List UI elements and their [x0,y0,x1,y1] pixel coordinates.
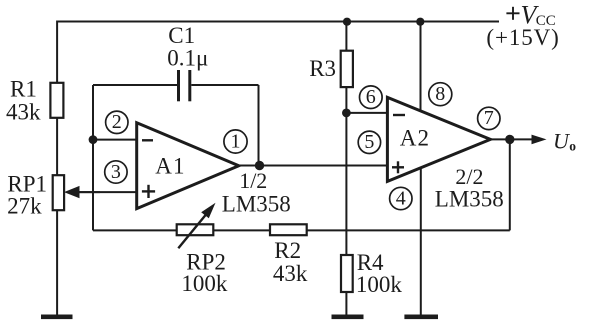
svg-text:2: 2 [112,111,122,133]
svg-text:100k: 100k [356,272,403,297]
svg-text:1: 1 [231,130,241,152]
svg-text:3: 3 [111,161,121,183]
svg-text:(+15V): (+15V) [486,25,559,50]
svg-text:R2: R2 [274,238,301,263]
svg-text:LM358: LM358 [222,192,291,217]
svg-text:4: 4 [396,187,406,209]
svg-text:LM358: LM358 [435,186,504,211]
svg-text:1/2: 1/2 [239,168,267,193]
svg-text:R1: R1 [10,77,37,102]
svg-text:43k: 43k [6,100,41,125]
svg-text:100k: 100k [181,271,228,296]
svg-text:C1: C1 [168,23,195,48]
svg-text:o: o [569,138,576,153]
svg-text:7: 7 [484,107,494,129]
svg-text:27k: 27k [7,194,42,219]
svg-text:A1: A1 [155,154,186,179]
svg-text:6: 6 [366,86,376,108]
svg-text:2/2: 2/2 [455,164,483,189]
svg-text:A2: A2 [400,126,431,151]
svg-text:43k: 43k [273,261,308,286]
svg-text:5: 5 [364,131,374,153]
svg-text:0.1μ: 0.1μ [167,46,208,71]
svg-text:8: 8 [435,83,445,105]
svg-text:R3: R3 [309,56,336,81]
